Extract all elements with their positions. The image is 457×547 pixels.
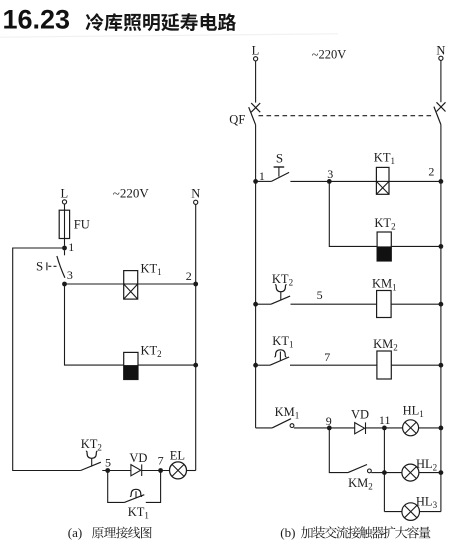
node 1 (a): [62, 246, 67, 251]
node 7 (a): [158, 468, 163, 473]
wire node3 down to KT2 coil (b): [329, 181, 377, 246]
wire node9 down to KM2 contact: [329, 428, 348, 473]
svg-text:QF: QF: [229, 112, 245, 126]
wire lamp to N bus: [187, 470, 196, 472]
svg-text:(a): (a): [68, 525, 82, 540]
wire node3 down to KT2 branch: [65, 284, 124, 365]
svg-text:7: 7: [324, 350, 330, 364]
lamp HL3: [402, 503, 420, 521]
wire L bus (b): [255, 125, 257, 428]
svg-text:N: N: [191, 187, 200, 201]
svg-text:2: 2: [428, 165, 434, 179]
terminal N (b): [439, 56, 443, 60]
svg-text:KM2: KM2: [373, 337, 398, 353]
breaker QF pole L: [249, 103, 261, 125]
svg-text:EL: EL: [170, 449, 185, 463]
lamp HL2: [402, 464, 419, 481]
wire node1 to left bus: [13, 248, 81, 471]
wire KT1 coil to node2 (b): [389, 180, 441, 182]
wire diode to node11: [366, 427, 403, 429]
wire node5 loop down: [108, 471, 125, 503]
node KM2-N: [439, 363, 444, 368]
switch S (a): [47, 250, 65, 277]
svg-text:VD: VD: [351, 408, 369, 422]
fuse FU: [59, 210, 69, 246]
wire to HL3: [384, 511, 402, 513]
node KT2-N (a): [193, 363, 198, 368]
contact KT1 delayed (b): [256, 350, 290, 365]
svg-text:5: 5: [317, 288, 323, 302]
terminal N (a): [194, 200, 198, 204]
wire N bus (b): [440, 125, 442, 512]
contactor coil KM1: [377, 291, 392, 318]
breaker QF pole N: [434, 102, 446, 124]
svg-text:S: S: [36, 258, 43, 273]
svg-text:VD: VD: [129, 451, 147, 465]
svg-text:L: L: [61, 187, 69, 201]
svg-text:3: 3: [67, 268, 73, 282]
svg-text:S: S: [276, 151, 283, 166]
node row5 on L bus: [253, 302, 258, 307]
svg-text:16.23: 16.23: [3, 5, 71, 35]
wire L to QF: [255, 61, 257, 103]
contactor coil KM2: [377, 351, 391, 379]
wire HL2 to N bus: [419, 472, 441, 474]
svg-text:HL1: HL1: [403, 404, 424, 420]
wire contact to KM2 coil: [290, 364, 377, 366]
svg-text:KT1: KT1: [272, 334, 293, 350]
wire node11 down: [383, 428, 385, 512]
svg-text:FU: FU: [74, 218, 90, 232]
lamp EL: [170, 462, 187, 479]
wire junction to HL2: [384, 472, 402, 474]
wire KT1 to node2: [138, 283, 196, 285]
svg-text:KT1: KT1: [141, 261, 162, 277]
node HL2-N: [439, 470, 444, 475]
svg-text:~220V: ~220V: [113, 185, 150, 200]
svg-text:1: 1: [68, 240, 74, 254]
wire N to QF: [440, 60, 442, 102]
terminal L (b): [254, 57, 258, 61]
title text 冷库照明延寿电路: [86, 13, 237, 31]
svg-text:11: 11: [379, 413, 391, 427]
node 3 (a): [62, 282, 67, 287]
contact KT2 delayed (b): [256, 285, 291, 304]
relay coil KT1 (a): [124, 271, 138, 300]
contact KM2: [348, 465, 371, 473]
node HL1-N: [439, 426, 444, 431]
svg-text:5: 5: [105, 456, 111, 470]
wire KT2 coil to N bus (b): [391, 245, 441, 247]
diode VD (a): [131, 464, 142, 476]
node 2 (a): [193, 282, 198, 287]
switch S (b): [256, 167, 290, 181]
wire HL1 to N bus: [419, 427, 441, 429]
lamp HL1: [403, 420, 419, 436]
svg-text:L: L: [252, 44, 260, 58]
faint scan underline: [0, 34, 338, 37]
wire node3 to KT1 coil: [65, 283, 124, 285]
node 9: [327, 426, 332, 431]
svg-text:7: 7: [158, 453, 164, 467]
contact KT1 delayed (a): [124, 489, 144, 502]
svg-text:KT2: KT2: [374, 216, 395, 232]
svg-text:2: 2: [186, 269, 192, 283]
svg-text:KT1: KT1: [128, 505, 149, 521]
node KT2-N (b): [439, 244, 444, 249]
breaker QF linkage dashed: [259, 115, 434, 117]
wire S to KT1 coil (b): [290, 180, 376, 182]
relay coil KT1 (b): [376, 167, 389, 194]
wire diode to lamp: [142, 470, 170, 472]
relay coil KT2 (b): [377, 232, 391, 261]
svg-text:HL2: HL2: [416, 457, 437, 473]
svg-text:~220V: ~220V: [312, 47, 347, 61]
svg-text:N: N: [436, 43, 445, 57]
wire contact to KM1 coil: [291, 303, 377, 305]
svg-text:KT2: KT2: [141, 343, 162, 359]
contact KM1: [256, 419, 294, 428]
contact KT2 delayed (a): [81, 451, 101, 470]
node 5 (a): [105, 468, 110, 473]
wire KM2 contact to node11 branch: [371, 472, 384, 474]
wire KM2 coil to N bus: [391, 364, 441, 366]
terminal L (a): [62, 200, 66, 204]
svg-text:3: 3: [327, 167, 333, 181]
wire KM1 coil to N bus: [391, 303, 441, 305]
wire contact to diode: [102, 470, 131, 472]
diode VD (b): [355, 422, 366, 434]
node KM1-N: [439, 302, 444, 307]
node 2 (b): [439, 179, 444, 184]
wire KT2 to N bus: [138, 364, 196, 366]
svg-text:KM1: KM1: [275, 405, 300, 421]
svg-text:KT2: KT2: [272, 272, 293, 288]
wire L to fuse: [64, 204, 66, 210]
svg-text:(b): (b): [280, 525, 295, 540]
wire HL3 to N bus: [420, 511, 441, 513]
wire N bus (a): [195, 204, 197, 470]
node 11: [382, 426, 387, 431]
node KM2-HL2 junction: [382, 470, 387, 475]
wire KM1 contact to diode: [294, 427, 355, 429]
svg-text:KT2: KT2: [81, 437, 102, 453]
node row7 on L bus: [253, 363, 258, 368]
svg-text:KT1: KT1: [374, 151, 395, 167]
wire loop right side: [146, 471, 161, 503]
relay coil KT2 (a): [124, 352, 138, 379]
svg-text:KM2: KM2: [348, 476, 373, 492]
node 3 (b): [327, 179, 332, 184]
node 1 (b): [253, 179, 258, 184]
